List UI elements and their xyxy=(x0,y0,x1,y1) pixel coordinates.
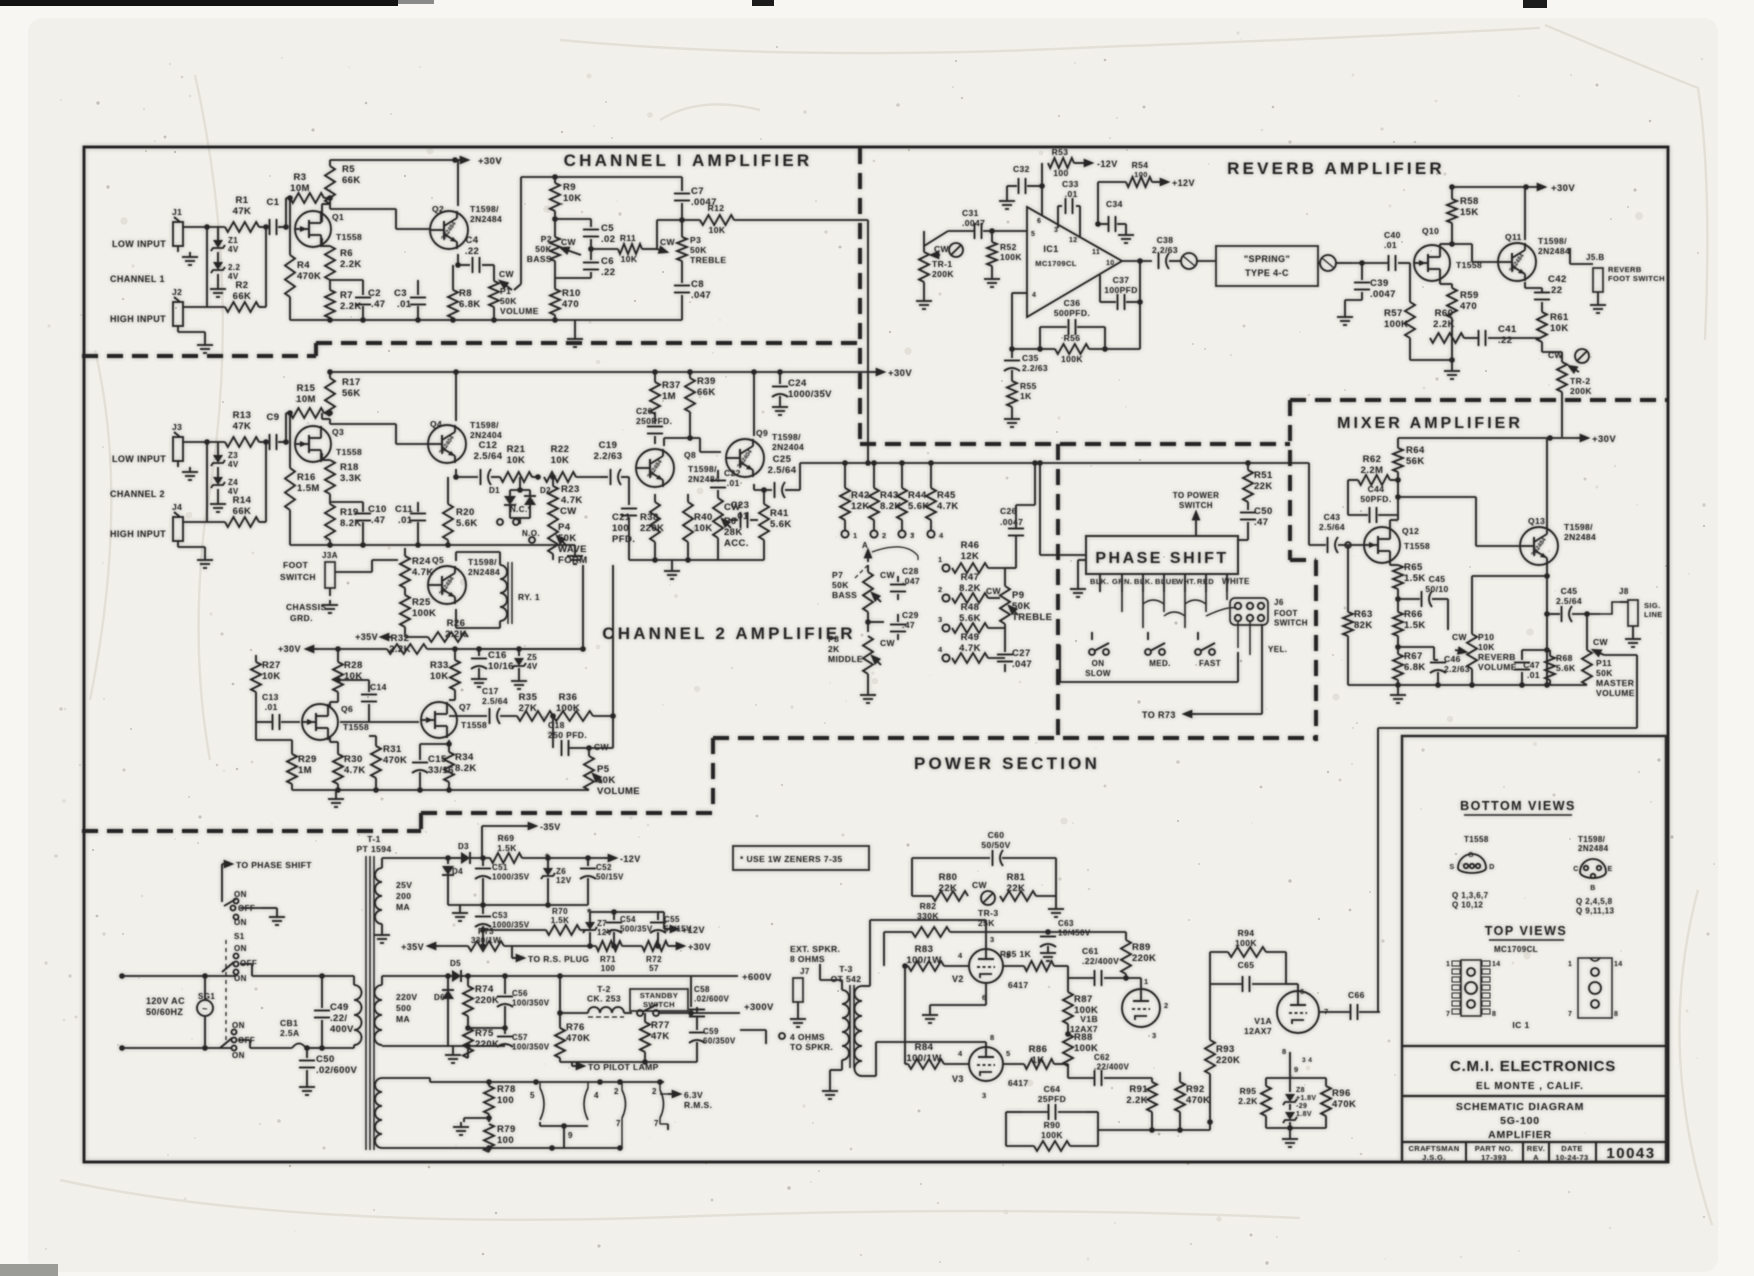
tube V2 6417 xyxy=(969,949,1003,983)
svg-text:T1598/2N2484: T1598/2N2484 xyxy=(1564,522,1596,542)
capacitor C20 250PFD xyxy=(654,412,656,424)
ground symbol channel 1 rail xyxy=(574,320,576,334)
resistor R58 15K xyxy=(1451,187,1453,199)
svg-text:R5122K: R5122K xyxy=(1254,470,1273,492)
svg-text:Q3: Q3 xyxy=(332,427,344,437)
terminal 2 tone xyxy=(942,594,949,601)
svg-text:T1558: T1558 xyxy=(1464,835,1489,844)
FET Q10 T1558 xyxy=(1414,245,1450,281)
svg-text:+30V: +30V xyxy=(688,942,711,952)
ground rail channel 1 xyxy=(290,319,682,321)
svg-text:TOP VIEWS: TOP VIEWS xyxy=(1485,924,1568,938)
svg-text:C: C xyxy=(1573,866,1578,873)
svg-text:R454.7K: R454.7K xyxy=(937,490,959,512)
svg-text:1: 1 xyxy=(938,555,943,564)
reverb drive transducer xyxy=(1181,253,1197,269)
svg-text:J5.B: J5.B xyxy=(1586,253,1605,262)
svg-text:Q12: Q12 xyxy=(1402,526,1419,536)
wire tremolo output up xyxy=(582,565,584,649)
capacitor C47 .01 xyxy=(1521,650,1523,660)
svg-text:TO R.S. PLUG: TO R.S. PLUG xyxy=(528,954,589,964)
resistor R3 10M xyxy=(286,197,290,199)
svg-text:5: 5 xyxy=(1031,231,1035,238)
arrow +30V reverb xyxy=(1528,186,1545,188)
resistor R78 100 xyxy=(484,1086,494,1114)
svg-text:REVERB AMPLIFIER: REVERB AMPLIFIER xyxy=(1227,159,1445,178)
speaker wires xyxy=(820,979,842,981)
svg-text:2: 2 xyxy=(614,1087,619,1096)
channel 1 output wire to mixer bus xyxy=(867,220,869,463)
capacitor C9 xyxy=(259,441,268,443)
svg-text:6417: 6417 xyxy=(1008,980,1029,990)
svg-text:EL MONTE , CALIF.: EL MONTE , CALIF. xyxy=(1476,1081,1584,1092)
svg-text:R1756K: R1756K xyxy=(342,377,361,399)
svg-text:POWER SECTION: POWER SECTION xyxy=(914,754,1100,773)
resistor R18 3.3K xyxy=(321,453,323,460)
arrow -12V power xyxy=(604,857,616,859)
svg-text:HIGH INPUT: HIGH INPUT xyxy=(110,314,166,324)
svg-text:7: 7 xyxy=(1568,1011,1572,1018)
FET Q6 T1558 xyxy=(302,704,338,740)
IC package top view with leads xyxy=(1461,960,1481,1016)
svg-text:R8122K: R8122K xyxy=(1007,872,1026,894)
section boundary: mixer left upper xyxy=(1288,400,1292,560)
svg-text:3: 3 xyxy=(1054,227,1058,234)
resistor R6 2.2K xyxy=(321,238,323,246)
svg-text:~: ~ xyxy=(202,1004,208,1014)
section boundary: channel2/phase divider xyxy=(1056,444,1060,741)
svg-text:V3: V3 xyxy=(952,1074,964,1084)
terminal 3 tone xyxy=(942,624,949,631)
capacitor C15 33/16 xyxy=(419,752,421,760)
svg-text:+30V: +30V xyxy=(478,156,502,167)
resistor R1 47K xyxy=(225,222,259,232)
svg-text:Q9: Q9 xyxy=(756,428,768,438)
svg-text:CW: CW xyxy=(880,638,896,648)
svg-text:Z14V: Z14V xyxy=(228,236,239,254)
svg-text:TO PILOT LAMP: TO PILOT LAMP xyxy=(588,1062,659,1072)
transformer T-1 HV winding xyxy=(375,985,383,1045)
output stage cathode bus xyxy=(1266,1127,1326,1129)
svg-text:C27.047: C27.047 xyxy=(1012,648,1032,670)
svg-text:R59470: R59470 xyxy=(1460,290,1479,312)
wire Q4 collector to +30V rail xyxy=(455,372,457,421)
svg-text:Q11: Q11 xyxy=(1505,232,1522,242)
wire J1 to R1 xyxy=(183,226,225,228)
svg-text:+12V: +12V xyxy=(1172,178,1195,188)
svg-text:T1558: T1558 xyxy=(336,232,362,242)
resistor R87 100K xyxy=(1067,966,1069,992)
wire Q6 drain to C14 and Q7 xyxy=(330,701,338,703)
svg-text:D5: D5 xyxy=(450,959,461,968)
svg-text:C11 .01: C11 .01 xyxy=(395,504,413,526)
resistor R21 10K xyxy=(500,472,532,482)
svg-text:E: E xyxy=(1607,866,1612,873)
svg-text:10: 10 xyxy=(1106,260,1115,267)
svg-text:C47 .01: C47 .01 xyxy=(1523,660,1540,680)
power ground bus 1 xyxy=(448,904,588,906)
svg-text:SIG.LINE: SIG.LINE xyxy=(1644,601,1663,619)
svg-text:R53: R53 xyxy=(1052,147,1069,157)
svg-text:Z54V: Z54V xyxy=(527,653,538,671)
capacitor C10 .47 xyxy=(362,502,364,512)
wire Q13 collector to rail xyxy=(1546,438,1548,528)
capacitor C39 .0047 xyxy=(1361,263,1363,280)
feedback wire output to rail xyxy=(1139,261,1141,349)
svg-text:2: 2 xyxy=(652,1087,657,1096)
FET Q7 T1558 xyxy=(421,702,457,738)
svg-text:C6.22: C6.22 xyxy=(601,256,615,278)
svg-text:R912.2K: R912.2K xyxy=(1126,1084,1148,1106)
svg-text:R494.7K: R494.7K xyxy=(959,632,981,654)
svg-text:R234.7K: R234.7K xyxy=(561,484,583,506)
terminal 1 tone xyxy=(942,564,949,571)
svg-text:J6: J6 xyxy=(1274,598,1284,607)
resistor R15 10M xyxy=(286,412,290,414)
svg-text:T1598/2N2484: T1598/2N2484 xyxy=(1578,835,1609,853)
svg-text:R183.3K: R183.3K xyxy=(340,462,362,484)
resistor R81 22K xyxy=(1000,891,1036,901)
zener Z1 4V xyxy=(217,232,219,240)
transistor Q4 2N2404 xyxy=(428,425,466,463)
fast switch xyxy=(1195,649,1201,655)
svg-text:CW: CW xyxy=(499,269,515,279)
svg-text:D: D xyxy=(1489,864,1494,871)
svg-text:J7: J7 xyxy=(800,967,810,976)
ground below J1 xyxy=(189,252,191,257)
resistor R35 27K xyxy=(517,711,553,721)
power ground bus 2 xyxy=(448,1045,505,1047)
svg-text:-12V: -12V xyxy=(620,854,641,864)
tone stack top wire xyxy=(521,176,682,178)
potentiometer P2 50K BASS xyxy=(550,237,560,261)
resistor R22 10K xyxy=(544,472,576,482)
tremolo ground bus xyxy=(292,789,589,791)
svg-text:N.C.*: N.C.* xyxy=(510,505,532,514)
wire footswitch to relay circuit xyxy=(335,571,372,573)
resistor R14 66K xyxy=(225,517,259,527)
transformer T-1 25V winding xyxy=(375,868,382,924)
svg-text:CW: CW xyxy=(972,880,988,890)
svg-text:PHASE SHIFT: PHASE SHIFT xyxy=(1095,550,1228,567)
wire Q4 emitter node ch2 xyxy=(455,469,457,477)
svg-text:R6456K: R6456K xyxy=(1406,445,1425,467)
svg-text:R71100: R71100 xyxy=(600,955,616,973)
resistor R5 66K xyxy=(329,160,331,166)
wire Q3 drain to Q4 xyxy=(322,418,330,420)
svg-text:R56: R56 xyxy=(1064,333,1081,343)
svg-text:1: 1 xyxy=(1446,961,1450,968)
resistor R33 10K xyxy=(454,649,456,660)
svg-text:11: 11 xyxy=(1092,249,1100,256)
svg-text:Q5: Q5 xyxy=(432,555,444,565)
svg-text:1.5K: 1.5K xyxy=(497,843,517,853)
svg-text:R85 1K: R85 1K xyxy=(1000,949,1032,959)
svg-text:R304.7K: R304.7K xyxy=(344,754,366,776)
wire zener tap ch2 xyxy=(206,442,208,522)
svg-text:T1558: T1558 xyxy=(336,447,362,457)
resistor R12 10K xyxy=(682,219,700,221)
wire phase shift input xyxy=(1040,554,1086,556)
svg-text:SCHEMATIC DIAGRAM: SCHEMATIC DIAGRAM xyxy=(1456,1101,1584,1113)
section boundary: mixer top xyxy=(1290,398,1667,402)
resistor R91 2.2K xyxy=(1147,1082,1157,1112)
resistor R27 10K xyxy=(255,655,257,662)
resistor R28 10K xyxy=(337,649,339,662)
wire V2 plate to output transformer xyxy=(985,920,987,949)
svg-text:LOW INPUT: LOW INPUT xyxy=(112,454,166,464)
capacitor C50 .02/600V xyxy=(306,1048,308,1058)
svg-text:R415.6K: R415.6K xyxy=(770,508,792,530)
switch mechanical link xyxy=(225,940,227,1044)
svg-text:R478.2K: R478.2K xyxy=(959,572,981,594)
scanner edge strip top xyxy=(0,0,398,6)
capacitor C16 10/16 xyxy=(478,649,480,656)
resistor R39 66K xyxy=(689,372,691,378)
svg-text:TO POWERSWITCH: TO POWERSWITCH xyxy=(1173,491,1220,510)
svg-text:2: 2 xyxy=(1164,1001,1169,1010)
svg-text:R438.2K: R438.2K xyxy=(880,490,902,512)
resistor R92 470K xyxy=(1175,1082,1185,1112)
wire gate node xyxy=(285,198,287,227)
wiper wire to R11 xyxy=(591,248,618,250)
svg-text:2: 2 xyxy=(882,531,887,540)
capacitor C51 1000/35V xyxy=(482,858,484,866)
border frame xyxy=(84,147,1668,1162)
wire Q12 drain to node xyxy=(1389,520,1391,527)
resistor R29 1M xyxy=(255,722,257,740)
section boundary: channel 1 bottom left xyxy=(82,354,316,358)
label +300V xyxy=(691,1012,740,1014)
svg-text:+30V: +30V xyxy=(1592,434,1616,445)
svg-text:R651.5K: R651.5K xyxy=(1404,562,1426,584)
transistor Q5 2N2484 xyxy=(428,566,466,604)
svg-text:CW: CW xyxy=(660,237,676,247)
svg-text:R3527K: R3527K xyxy=(519,692,538,714)
jack J4 high input channel 2 xyxy=(173,517,183,541)
resistor R60 2.2K xyxy=(1430,333,1464,343)
capacitor C2 .47 xyxy=(362,280,364,295)
svg-text:G: G xyxy=(1468,852,1474,859)
spring unit box xyxy=(1216,246,1318,286)
resistor R32 2.2K xyxy=(387,644,427,654)
svg-text:T1598/2N2484: T1598/2N2484 xyxy=(1538,236,1570,256)
svg-text:R10470: R10470 xyxy=(562,288,581,310)
capacitor C11 .01 xyxy=(417,502,419,512)
capacitor C19 2.2/63 xyxy=(600,476,608,478)
wire J3 to R13 xyxy=(183,441,225,443)
resistor R79 100 xyxy=(484,1124,494,1152)
phase shift wiring harness xyxy=(1122,592,1227,628)
svg-text:100: 100 xyxy=(1053,168,1068,178)
tube V1B 12AX7 xyxy=(1122,989,1160,1027)
tube V1A 12AX7 xyxy=(1277,991,1319,1033)
heater top rail xyxy=(429,1078,431,1082)
svg-text:Q6: Q6 xyxy=(341,704,353,714)
title block bottom row xyxy=(1465,1142,1467,1162)
resistor R93 220K xyxy=(1209,984,1211,1040)
svg-text:TYPE 4-C: TYPE 4-C xyxy=(1245,268,1289,278)
svg-text:5: 5 xyxy=(1006,1049,1011,1058)
svg-text:10K: 10K xyxy=(621,254,638,264)
svg-text:R8022K: R8022K xyxy=(939,872,958,894)
resistor R48 5.6K xyxy=(952,623,988,633)
svg-text:R952.2K: R952.2K xyxy=(1238,1086,1258,1106)
svg-text:T1598/2N2484: T1598/2N2484 xyxy=(468,557,500,577)
mixer ground bus xyxy=(1348,684,1587,686)
svg-text:R94100K: R94100K xyxy=(1235,928,1257,948)
resistor R75 220K xyxy=(463,1028,473,1058)
ground symbol channel 2 rail xyxy=(574,545,576,551)
ground below zeners ch2 xyxy=(217,489,219,499)
svg-text:7: 7 xyxy=(616,1119,621,1128)
resistor R65 1.5K xyxy=(1389,563,1391,565)
svg-text:100: 100 xyxy=(1134,170,1148,179)
resistor R59 470 xyxy=(1439,281,1441,284)
svg-text:MC1709CL: MC1709CL xyxy=(1494,945,1538,954)
section boundary: reverb bottom xyxy=(860,442,1290,446)
svg-text:4: 4 xyxy=(958,951,963,960)
svg-text:J1: J1 xyxy=(172,207,182,217)
resistor R7 2.2K xyxy=(325,290,335,318)
svg-text:A: A xyxy=(862,541,868,550)
svg-text:8: 8 xyxy=(1282,1047,1287,1056)
svg-text:9: 9 xyxy=(1294,1065,1299,1074)
resistor R10 470 xyxy=(550,289,560,315)
capacitor C26 .0047 xyxy=(1034,461,1036,505)
svg-text:CW: CW xyxy=(594,742,610,752)
line input wires xyxy=(119,973,125,979)
capacitor C46 2.2/63 xyxy=(1398,646,1434,648)
svg-text:3: 3 xyxy=(982,1091,987,1100)
svg-text:R2110K: R2110K xyxy=(507,444,526,466)
resistor R70 1.5K xyxy=(546,925,580,935)
svg-text:T1558: T1558 xyxy=(343,722,369,732)
svg-text:MC1709CL: MC1709CL xyxy=(1035,259,1077,268)
svg-text:YEL.: YEL. xyxy=(1268,645,1287,654)
capacitor C41 .22 xyxy=(1478,330,1480,346)
svg-text:CW: CW xyxy=(561,237,577,247)
resistor R64 56K xyxy=(1397,438,1399,448)
capacitor C25 2.5/64 xyxy=(753,484,755,490)
section boundary: channel 2 bottom step left xyxy=(419,813,423,831)
svg-text:R1510M: R1510M xyxy=(296,383,316,405)
svg-text:T1598/2N2404: T1598/2N2404 xyxy=(470,420,502,440)
capacitor C53 1000/35V xyxy=(482,905,484,914)
svg-text:4: 4 xyxy=(958,1049,963,1058)
arrow +30V channel 1 xyxy=(455,159,468,161)
resistor R96 470K xyxy=(1321,1086,1331,1116)
svg-text:FAST: FAST xyxy=(1199,659,1221,668)
svg-text:T1598/2N2484: T1598/2N2484 xyxy=(470,204,502,224)
svg-text:RED: RED xyxy=(1197,577,1214,586)
svg-text:T1558: T1558 xyxy=(461,720,487,730)
svg-text:Z34V: Z34V xyxy=(228,451,239,469)
svg-text:14: 14 xyxy=(1492,961,1501,968)
wire mix bus into mixer xyxy=(1308,463,1310,545)
svg-text:Q1: Q1 xyxy=(332,212,344,222)
ground between tubes xyxy=(985,983,987,1005)
svg-text:R69: R69 xyxy=(498,833,515,843)
svg-text:IC1: IC1 xyxy=(1043,244,1058,254)
resistor R52 100K xyxy=(991,231,993,242)
potentiometer P6 28K ACC xyxy=(713,498,723,538)
svg-text:R36100K: R36100K xyxy=(556,692,580,714)
svg-text:R3966K: R3966K xyxy=(697,376,716,398)
wire gate node ch2 xyxy=(285,413,287,442)
svg-text:C66: C66 xyxy=(1348,990,1365,1000)
svg-text:5: 5 xyxy=(530,1091,535,1100)
resistor R36 100K xyxy=(553,711,593,721)
zener Z4 4V xyxy=(217,467,219,477)
svg-text:R622.2M: R622.2M xyxy=(1361,454,1384,476)
svg-text:J2: J2 xyxy=(172,287,182,297)
wire zener tap xyxy=(206,227,208,307)
svg-text:1: 1 xyxy=(1568,961,1572,968)
capacitor C4 .22 xyxy=(472,257,474,273)
resistor R2 66K xyxy=(225,302,259,312)
svg-text:+600V: +600V xyxy=(742,972,772,983)
svg-text:+30V: +30V xyxy=(1551,183,1575,194)
svg-text:WHITE: WHITE xyxy=(1222,577,1250,586)
svg-text:LOW INPUT: LOW INPUT xyxy=(112,239,166,249)
svg-text:Q8: Q8 xyxy=(684,450,696,460)
svg-text:FOOT: FOOT xyxy=(283,560,309,570)
section boundary: power section top xyxy=(713,736,1316,740)
IC package top view plain xyxy=(1578,958,1612,1018)
resistor R80 22K xyxy=(932,891,968,901)
svg-text:C22 .01: C22 .01 xyxy=(724,468,741,488)
switch common wires xyxy=(1091,632,1093,640)
svg-text:BLUE: BLUE xyxy=(1155,577,1177,586)
svg-text:8: 8 xyxy=(1614,1011,1618,1018)
capacitor C8 .047 xyxy=(674,285,690,287)
resistor R43 8.2K xyxy=(869,488,879,520)
svg-text:-35V: -35V xyxy=(540,822,561,832)
resistor R49 4.7K xyxy=(952,653,988,663)
resistor R31 470K xyxy=(375,736,377,746)
svg-text:R2810K: R2810K xyxy=(344,660,363,682)
wire +12V to op-amp xyxy=(1097,182,1099,224)
svg-text:R7747K: R7747K xyxy=(651,1020,670,1042)
resistor R44 5.6K xyxy=(897,488,907,520)
resistor R69 1.5K xyxy=(490,853,522,863)
label 6.3V RMS xyxy=(660,1093,668,1095)
svg-text:R5815K: R5815K xyxy=(1460,196,1479,218)
transistor Q9 T1598/2N2404 xyxy=(726,439,764,477)
svg-text:+12V: +12V xyxy=(682,925,705,935)
svg-text:10K: 10K xyxy=(709,225,726,235)
potentiometer P1 50K VOLUME xyxy=(493,265,495,281)
heater bottom rail xyxy=(429,1147,431,1149)
svg-text:C.M.I. ELECTRONICS: C.M.I. ELECTRONICS xyxy=(1450,1058,1616,1075)
med switch xyxy=(1145,649,1151,655)
capacitor C21 100PFD xyxy=(628,477,630,505)
capacitor C6 .22 xyxy=(583,262,599,264)
svg-text:120V AC50/60HZ: 120V AC50/60HZ xyxy=(146,996,185,1017)
resistor R13 47K xyxy=(225,437,259,447)
svg-text:C32: C32 xyxy=(1013,164,1030,174)
svg-text:Q 1,3,6,7Q 10,12: Q 1,3,6,7Q 10,12 xyxy=(1452,891,1489,910)
svg-text:C5.02: C5.02 xyxy=(601,223,615,245)
svg-text:RY. 1: RY. 1 xyxy=(518,592,540,602)
channel 2 output bus wire xyxy=(799,463,801,490)
svg-text:7: 7 xyxy=(1446,1011,1450,1018)
transistor Q8 T1598/2N2484 xyxy=(636,449,674,487)
svg-text:1: 1 xyxy=(853,531,858,540)
terminal 4 tone xyxy=(942,654,949,661)
svg-text:3: 3 xyxy=(1152,1031,1157,1040)
